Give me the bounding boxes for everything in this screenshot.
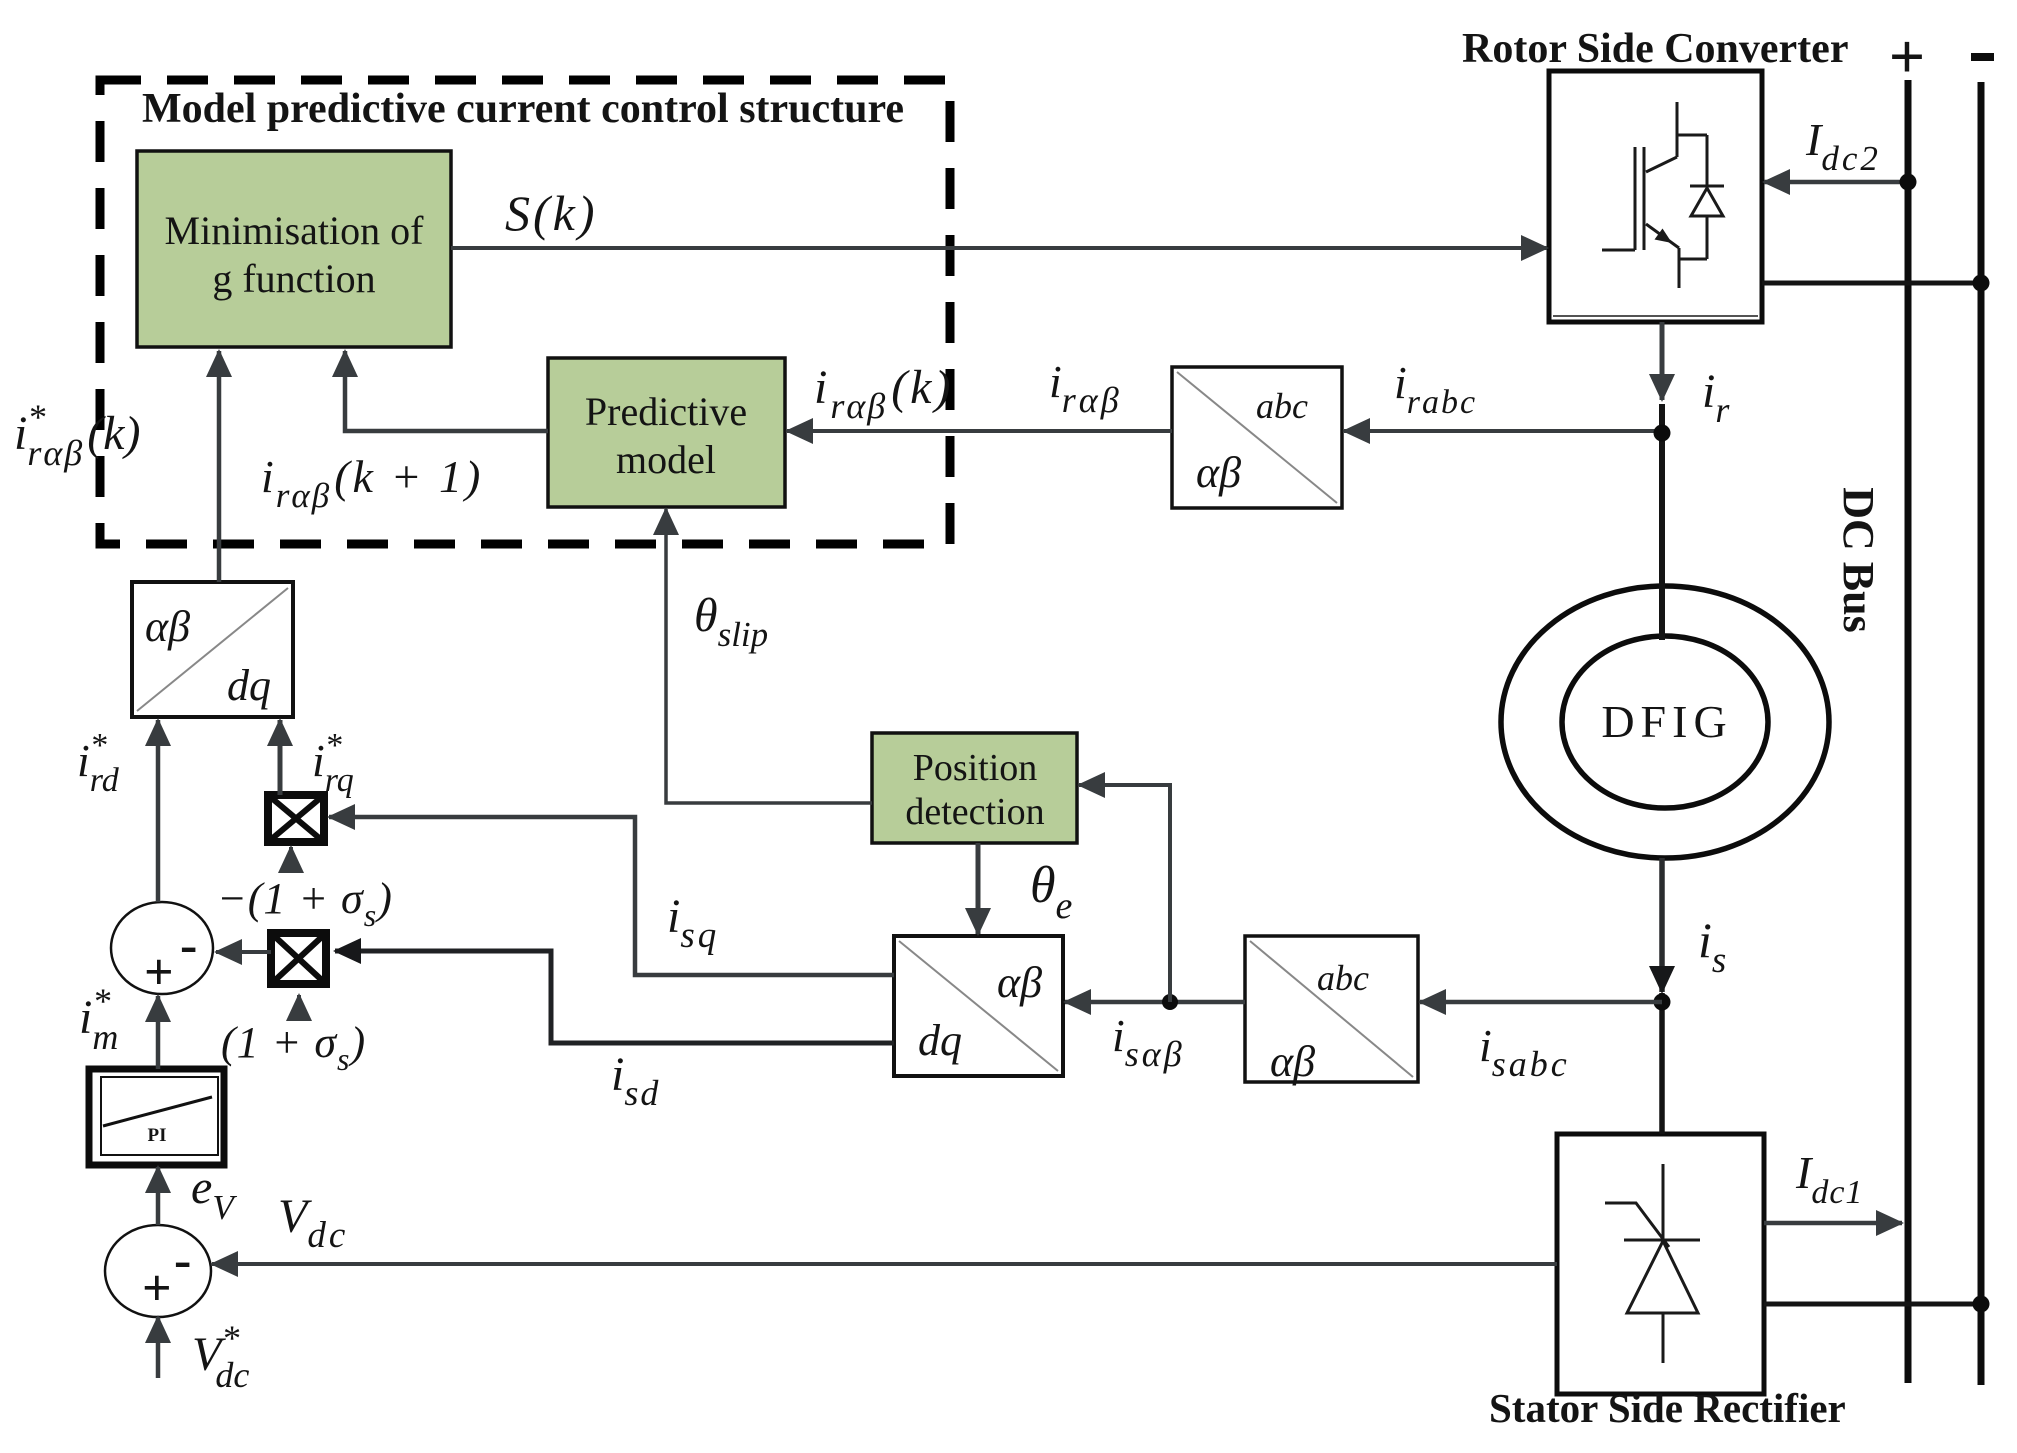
DC bus negative rail [1978,82,1985,1385]
svg-text:+: + [142,1260,172,1317]
svg-text:αβ: αβ [145,602,190,651]
block: Predictive model [548,358,785,507]
wire V_dc: rectifier -> summing junction S2 [212,1262,1557,1266]
svg-text:S(k): S(k) [505,185,598,241]
multiplier X1 (i*rq gain) [268,795,324,842]
wire: gain (1+sigma_s) stub into X2 [297,995,301,1016]
wire theta_slip: Position detection -> Predictive model [666,509,872,803]
svg-text:abc: abc [1256,386,1308,426]
wire: converter output drop [1660,322,1665,400]
svg-text:+: + [1889,21,1925,92]
node: i_sab junction [1162,994,1178,1010]
svg-text:detection: detection [905,791,1044,833]
svg-text:Stator Side Rectifier: Stator Side Rectifier [1489,1385,1846,1431]
DFIG machine (double circle) [1501,586,1829,858]
svg-text:αβ: αβ [1270,1037,1315,1086]
svg-text:Model predictive current contr: Model predictive current control structu… [142,86,904,132]
svg-text:DC Bus: DC Bus [1834,487,1883,633]
svg-text:DFIG: DFIG [1601,696,1732,747]
label: - polarity [1971,53,1994,61]
node on - bus [1973,275,1990,292]
summing junction S1 (i*m - product) [111,902,213,1001]
svg-text:dq: dq [918,1016,962,1065]
wire V*_dc: reference input -> summing junction S2 [156,1317,161,1378]
wire i_rabc: rotor node -> abc/alpha-beta [1344,429,1662,433]
svg-text:αβ: αβ [1196,448,1241,497]
node on - bus (rectifier return) [1973,1296,1990,1313]
svg-text:Minimisation of: Minimisation of [165,208,425,253]
svg-text:PI: PI [148,1125,167,1146]
svg-text:abc: abc [1317,958,1369,998]
wire i*_rd: summing junction S1 -> alpha-beta/dq [156,720,161,902]
wire I_dc2: +bus -> converter [1764,180,1908,185]
wire i_rab(k+1): Predictive model -> Minimisation [345,351,548,431]
block: Minimisation of g function [137,151,451,347]
wire: rectifier to - bus [1764,1302,1981,1307]
IGBT Q1 with anti-parallel diode D1 [1602,102,1724,288]
wire i_sab: abc/alpha-beta -> alpha-beta/dq [1065,1000,1245,1005]
wire I_dc1: rectifier -> + bus [1764,1221,1902,1226]
wire: multiplier X1 -> alpha-beta/dq (i*_rq) [278,720,283,795]
DC bus positive rail [1905,80,1912,1383]
wire i*_m: PI -> summing junction S1 [156,996,161,1069]
svg-text:αβ: αβ [997,958,1042,1007]
wire: multiplier X2 -> summing junction S1 [216,950,271,954]
transform block: abc to alpha-beta (stator currents) [1245,936,1418,1086]
multiplier X2 (i*m gain) [271,933,326,984]
block: Position detection [872,733,1077,843]
thyristor SCR1 [1605,1164,1700,1363]
svg-text:-: - [180,917,197,974]
wire e_V: summing junction S2 -> PI [156,1167,161,1225]
MPC dashed enclosure [100,80,950,544]
svg-text:Predictive: Predictive [585,389,747,434]
wire: converter to - bus [1762,281,1981,286]
svg-text:+: + [144,944,174,1001]
IGBT emitter arrow [1655,229,1673,244]
node: rotor current junction [1654,425,1671,442]
wire i_sabc: stator node -> abc/alpha-beta [1420,1000,1662,1005]
wire S(k): Minimisation -> Rotor Side Converter [451,246,1547,250]
svg-text:model: model [616,437,716,482]
block: Rotor Side Converter [1549,71,1762,322]
svg-text:Rotor Side Converter: Rotor Side Converter [1462,26,1848,72]
wire i*_rab(k): alpha-beta/dq -> Minimisation [217,351,222,582]
summing junction S2 (Vdc* - Vdc) [105,1225,211,1317]
PI controller block [89,1069,224,1165]
svg-text:dq: dq [227,661,271,710]
wire i_sd: alpha-beta/dq -> multiplier X2 [335,951,894,1043]
block: Stator Side Rectifier [1557,1134,1764,1394]
wire theta_e: Position detection -> alpha-beta/dq [976,843,981,934]
transform block: abc to alpha-beta (rotor currents) [1172,367,1342,508]
wire: rotor feed to DFIG [1659,404,1665,640]
wire: DFIG stator drop [1659,858,1665,992]
transform block: alpha-beta to dq (rotor reference) [132,582,293,717]
node on + bus [1900,174,1917,191]
node: stator current junction [1654,994,1671,1011]
wire: i_sab feedback -> Position detection [1079,785,1170,1002]
transform block: alpha-beta to dq (stator currents) [894,936,1063,1076]
wire: gain -(1+sigma_s) stub into X1 [289,847,293,872]
wire i_sq: alpha-beta/dq -> multiplier X1 [329,817,894,975]
wire i_rab: abc/alpha-beta -> Predictive model [787,429,1172,433]
svg-text:-: - [174,1232,191,1289]
svg-text:Position: Position [913,747,1038,789]
svg-text:g function: g function [212,256,375,301]
